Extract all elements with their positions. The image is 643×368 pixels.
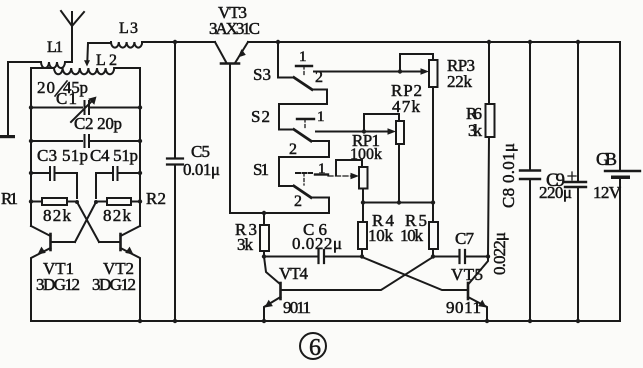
svg-text:VT4: VT4	[279, 264, 309, 283]
svg-text:6: 6	[309, 335, 321, 361]
svg-text:22k: 22k	[447, 72, 473, 91]
svg-text:C7: C7	[455, 229, 475, 248]
svg-text:3k: 3k	[237, 235, 254, 254]
svg-text:3k: 3k	[468, 121, 483, 140]
svg-text:GB: GB	[596, 149, 617, 169]
svg-text:20: 20	[37, 78, 55, 97]
svg-text:1: 1	[299, 49, 307, 65]
svg-text:C8 0.01μ: C8 0.01μ	[499, 143, 518, 208]
svg-text:C4 51p: C4 51p	[90, 146, 138, 165]
svg-text:VT5: VT5	[451, 265, 483, 284]
svg-text:C5: C5	[191, 142, 210, 161]
svg-text:2: 2	[315, 69, 323, 86]
svg-text:0.01μ: 0.01μ	[183, 160, 220, 179]
svg-text:9011: 9011	[283, 298, 311, 317]
svg-text:C1: C1	[56, 89, 77, 108]
svg-text:3AX31C: 3AX31C	[209, 19, 260, 38]
svg-text:R1: R1	[1, 189, 18, 208]
svg-text:C2 20p: C2 20p	[74, 114, 122, 133]
svg-text:1: 1	[317, 109, 325, 125]
svg-text:R2: R2	[146, 189, 166, 208]
svg-text:0.022μ: 0.022μ	[490, 232, 509, 275]
svg-text:12V: 12V	[593, 183, 622, 202]
svg-text:1: 1	[318, 161, 326, 177]
svg-text:2: 2	[294, 193, 302, 210]
svg-text:L3: L3	[119, 20, 138, 37]
svg-text:0.022μ: 0.022μ	[292, 234, 342, 253]
svg-text:C3 51p: C3 51p	[37, 146, 88, 165]
svg-text:9011: 9011	[446, 298, 481, 317]
svg-text:2: 2	[289, 141, 297, 158]
svg-text:S3: S3	[253, 65, 271, 84]
svg-text:220μ: 220μ	[539, 183, 572, 202]
svg-text:10k: 10k	[368, 226, 394, 245]
svg-text:L1: L1	[47, 39, 63, 56]
svg-text:47k: 47k	[392, 97, 421, 116]
svg-text:82k: 82k	[43, 206, 72, 225]
svg-text:3DG12: 3DG12	[36, 275, 80, 294]
svg-text:82k: 82k	[103, 206, 132, 225]
svg-text:3DG12: 3DG12	[92, 275, 136, 294]
svg-text:S1: S1	[253, 160, 269, 179]
svg-text:10k: 10k	[400, 226, 424, 245]
svg-text:100k: 100k	[350, 146, 382, 163]
